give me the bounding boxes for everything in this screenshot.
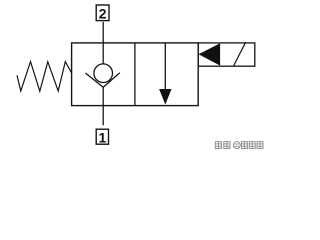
return spring bbox=[17, 62, 72, 92]
solenoid box bbox=[198, 43, 255, 66]
flow arrow open position bbox=[159, 43, 171, 104]
watermark bbox=[215, 142, 263, 149]
svg-text:2: 2 bbox=[99, 6, 107, 22]
check valve poppet circle bbox=[94, 64, 113, 83]
solenoid triangle bbox=[199, 43, 221, 65]
port label 2 bbox=[96, 5, 109, 22]
wire port 2 to check valve bbox=[102, 22, 104, 64]
proportional slash bbox=[234, 42, 246, 66]
port label 1 bbox=[96, 129, 108, 145]
position divider bbox=[134, 43, 136, 106]
wire check valve to port 1 bbox=[102, 87, 104, 125]
svg-text:1: 1 bbox=[99, 129, 107, 145]
check valve seat bbox=[85, 73, 119, 88]
valve body envelope bbox=[72, 43, 199, 106]
